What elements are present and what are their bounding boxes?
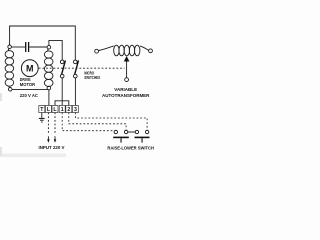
svg-text:VARIABLE: VARIABLE: [114, 87, 138, 93]
svg-text:M: M: [26, 64, 34, 74]
svg-text:1: 1: [61, 107, 64, 113]
svg-text:RAISE-LOWER SWITCH: RAISE-LOWER SWITCH: [107, 145, 154, 151]
svg-text:3: 3: [74, 107, 77, 113]
svg-text:220 V AC: 220 V AC: [20, 93, 39, 98]
svg-text:SWITCHES: SWITCHES: [84, 75, 100, 80]
svg-text:MOTOR: MOTOR: [20, 82, 36, 87]
svg-text:AUTOTRANSFORMER: AUTOTRANSFORMER: [102, 93, 150, 99]
svg-text:2: 2: [67, 107, 70, 113]
svg-text:INPUT 220 V: INPUT 220 V: [39, 145, 66, 150]
